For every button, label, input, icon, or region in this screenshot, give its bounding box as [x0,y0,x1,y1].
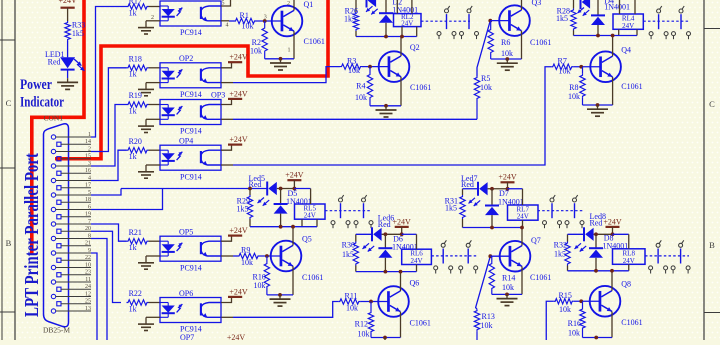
svg-text:R20: R20 [129,137,142,146]
LED Led8 Red [583,227,585,241]
ground below LED1 [67,78,69,82]
svg-text:+24V: +24V [227,333,246,340]
wire CON1 pin9 down to bottom edge [91,253,97,341]
wire R2/Q1 emitter [265,58,294,60]
Q7 collector to relay rail [521,228,523,246]
ground at OP4 pin2 [146,164,160,166]
wire R1 to Q1 base [256,20,282,22]
resistor R20 1k [127,148,149,153]
RL7 top rail [463,188,479,190]
svg-text:10k: 10k [254,281,266,290]
Q6 emitter down [400,312,402,338]
ground below Q7 [506,294,508,298]
pin stub R20 to opto [149,149,161,151]
CON1 pin 17 [57,186,61,190]
wire R4/Q2 emitter [370,105,401,107]
ground at OP5 pin2 [146,255,160,257]
junction D7 bottom [490,226,494,230]
LED LED1 Red [60,57,75,68]
svg-text:R12: R12 [355,320,368,329]
wire R12/Q6 emitter [371,337,401,339]
RL7 contact linkage (dashed) [538,210,584,212]
resistor R10 10k [266,256,268,262]
junction D5 bottom [279,225,283,229]
svg-text:B: B [709,240,715,250]
transistor Q3 C1061 [499,5,530,36]
CON1 pin 14 [57,142,61,146]
wire R6/Q3 emitter [491,58,522,60]
wire CON1 pin20 to R22 [91,231,121,302]
svg-text:+24V: +24V [393,217,412,226]
svg-text:OP4: OP4 [179,137,193,146]
wire base to Q3 [490,20,509,22]
junction at Q7 emitter [505,293,509,297]
wire CON1 pin6 to node rail [91,189,163,210]
svg-text:1k: 1k [129,243,137,252]
wire R15 to Q8 base [574,300,600,302]
svg-text:8: 8 [88,233,91,239]
svg-text:PC914: PC914 [180,172,202,181]
wire R13 to Q7 base (diagonal) [476,256,491,309]
wire OP2 pin4 to R3 [233,67,340,83]
wire rail to RL6 coil [402,233,417,235]
resistor R16 10k [582,301,584,307]
junction D8 top [594,232,598,236]
svg-text:CON1: CON1 [44,114,64,123]
svg-text:+24V: +24V [229,287,248,296]
svg-text:12: 12 [85,291,91,297]
relay RL2 24V [394,14,422,27]
+24V at OP4 pin5 [221,145,232,151]
svg-text:C1061: C1061 [304,37,325,46]
svg-text:21: 21 [85,241,91,247]
junction at Q1 emitter [279,57,283,61]
wire R7 to Q4 base [573,66,600,68]
relay RL6 24V [402,249,432,264]
junction at Q6 base [369,300,373,304]
svg-text:OP6: OP6 [179,289,193,298]
opto-isolator OP1 PC914 [160,1,221,26]
diode D8 1N4001 [595,234,597,248]
junction Q5 collector rail [291,225,295,229]
svg-text:C1061: C1061 [410,83,431,92]
svg-text:C1061: C1061 [410,319,431,328]
wire CON1 pin7 to R21 [91,224,127,241]
RL6 top rail [356,233,372,235]
RL2 bottom rail [356,36,417,38]
resistor R9 10k [238,253,260,258]
RL2 bottom pins [401,27,403,37]
Q3 emitter down [521,31,523,59]
+24V at RL6 rail [395,226,409,228]
CON1 pin 1 [51,135,55,139]
Q7 emitter down [521,266,523,294]
RL8 top rail [568,233,585,235]
wire Led8 to +24V junction [594,233,613,235]
svg-text:1: 1 [288,48,291,54]
junction at Q4 emitter [596,103,600,107]
pin stub OP1 pin4 [221,20,229,22]
diode D4 1N4001 [597,0,599,15]
RL8 contact linkage (dashed) [645,255,689,257]
opto-isolator OP5 PC914 [160,236,221,261]
pin stub R19 to opto [149,104,161,106]
svg-text:22: 22 [85,255,91,261]
svg-text:R5: R5 [481,74,490,83]
ground at OP6 pin2 [146,316,160,318]
wire CON1 pin4 to R20 [91,150,127,180]
ground below Q1 [280,59,282,63]
svg-text:10k: 10k [568,329,580,338]
resistor R1 10k [234,18,256,23]
resistor R32 1k5 [567,234,569,241]
resistor R13 10k (from bottom edge) [476,331,478,341]
wire Led6 to +24V junction [382,233,402,235]
pin stub OP3 pin4 [221,118,233,120]
RL6 contact set 1 [441,243,445,247]
CON1 pin 5 [51,193,55,197]
svg-text:R15: R15 [559,291,572,300]
RL6 contact linkage (dashed) [431,255,478,257]
svg-text:24V: 24V [411,257,423,265]
RL6 bottom rail [356,271,417,273]
opto-isolator OP2 PC914 [160,63,221,88]
wire LED1 to ground [67,70,69,79]
CON1 pin 25 [57,302,61,306]
junction Q4 collector rail [611,34,615,38]
Q2 emitter down [400,77,402,106]
transistor Q5 C1061 [271,241,302,272]
ground below Q3 [506,59,508,63]
Q5 emitter down [292,266,294,295]
svg-text:1k: 1k [129,152,137,161]
svg-text:24V: 24V [622,22,634,30]
CON1 pin 6 [51,207,55,211]
junction at Q5 emitter [278,293,282,297]
opto-isolator OP6 PC914 [160,298,221,323]
pin stub OP1 pin5 to top edge [221,0,231,6]
+24V at RL7 rail [501,181,515,183]
svg-text:10k: 10k [481,321,493,330]
svg-text:C1061: C1061 [530,38,551,47]
pin stub R22 to opto [149,302,161,304]
pin stub R17 to opto [149,6,161,8]
RL7 contact set 1 [550,198,554,202]
svg-text:1k: 1k [129,106,137,115]
svg-text:19: 19 [85,212,91,218]
CON1 pin 19 [57,215,61,219]
resistor R7 10k [551,64,573,69]
svg-text:1k5: 1k5 [344,15,356,24]
ground below Q2 [385,106,387,110]
svg-text:R18: R18 [129,55,142,64]
svg-text:10k: 10k [480,83,492,92]
resistor R15 10k [554,299,574,304]
svg-text:1k5: 1k5 [445,204,457,213]
svg-text:6: 6 [88,204,91,210]
svg-text:R32: R32 [554,241,567,250]
+24V at RL5 rail [287,179,301,181]
svg-text:10k: 10k [241,258,253,267]
RL5 contact set 2 [362,198,366,202]
junction at Q4 base [579,65,583,69]
svg-text:18: 18 [85,197,91,203]
RL2 contact set 1 [445,9,449,13]
pin stub OP4 pin4 [221,164,233,166]
ground at OP1 pin2 [146,20,160,22]
svg-text:R4: R4 [356,82,365,91]
resistor R6 10k [490,21,492,28]
CON1 pin 11 [51,280,55,284]
RL7 bottom rail [463,227,523,229]
svg-text:4: 4 [88,175,91,181]
highlighted red wire B (CON1 pin15 up and across to top edge) [55,0,328,159]
svg-text:1N4001: 1N4001 [604,2,630,11]
CON1 pin 20 [57,229,61,233]
svg-text:1k5: 1k5 [237,205,249,214]
wire OP1 pin4 to R1 [229,20,234,22]
svg-text:C: C [6,98,12,108]
wire OP4 pin4 to R7 [233,67,551,165]
CON1 pin 12 [51,294,55,298]
CON1 pin 15 [57,157,61,161]
svg-text:Red: Red [48,58,61,67]
junction Q8 collector rail [610,269,614,273]
RL2 contact linkage (dashed) [421,20,470,22]
pin stub OP5 pin4 [221,255,233,257]
svg-text:Q4: Q4 [621,46,631,55]
junction at Q7 base [488,254,492,258]
svg-text:PC914: PC914 [180,127,202,136]
CON1 pin 3 [51,164,55,168]
svg-text:5: 5 [88,190,91,196]
svg-text:R1: R1 [240,11,249,20]
CON1 pin 22 [57,258,61,262]
resistor R29 1k5 [249,189,251,196]
ground below Q6 (cropped) [384,338,386,342]
svg-text:R3: R3 [347,57,356,66]
svg-text:3: 3 [88,161,91,167]
RL8 contact set 1 [656,243,660,247]
CON1 pin 16 [57,171,61,175]
svg-text:OP5: OP5 [179,228,193,237]
svg-text:R6: R6 [501,38,510,47]
highlighted red wire A (from top edge down left side) [32,0,84,254]
junction at Q2 emitter [384,104,388,108]
svg-text:OP2: OP2 [179,54,193,63]
RL4 contact set 2 [679,9,683,13]
Q8 collector to relay rail [611,271,613,291]
svg-text:R30: R30 [342,240,355,249]
relay RL5 24V [295,204,326,219]
pin stub R18 to opto [149,67,161,69]
svg-text:Red: Red [461,180,474,189]
resistor R4 10k [369,67,371,73]
CON1 pin 7 [51,222,55,226]
wire OP5 pin4 to R9 [233,255,238,257]
svg-text:Q8: Q8 [621,280,631,289]
wire +24V to R33 [67,8,69,21]
Q4 collector to relay rail [612,36,614,57]
wire R9 to Q5 base [260,255,281,257]
junction at Q8 base [579,299,583,303]
wire R16/Q8 emitter [583,337,613,339]
wire OP6 pin4 to R11 [233,302,338,318]
svg-text:+24V: +24V [285,171,304,180]
svg-text:10k: 10k [502,283,514,292]
CON1 pin 13 [51,309,55,313]
RL8 contact set 2 [679,243,683,247]
resistor R3 10k [340,64,362,69]
diode D7 1N4001 [491,189,493,206]
svg-text:23: 23 [85,270,91,276]
svg-text:24V: 24V [517,213,529,221]
svg-text:16: 16 [85,168,91,174]
wire R3 to Q2 base [362,66,389,68]
wire R33 to LED1 [67,41,69,57]
wire Led7 to +24V junction [488,188,508,190]
svg-text:+24V: +24V [229,89,248,98]
svg-text:C1061: C1061 [621,82,642,91]
resistor R17 1k [127,4,149,9]
pin stub OP6 pin4 [221,316,233,318]
svg-text:1k: 1k [129,70,137,79]
RL8 bottom pin [628,264,630,271]
resistor R2 10k [264,21,266,27]
svg-text:R14: R14 [502,274,515,283]
resistor R11 10k [338,299,360,304]
junction at Q6 emitter [383,336,387,340]
junction at Q8 emitter [594,336,598,340]
svg-text:20: 20 [85,226,91,232]
svg-text:Q7: Q7 [531,236,541,245]
svg-text:1k5: 1k5 [554,250,566,259]
junction D5 top [279,187,283,191]
svg-text:7: 7 [88,219,91,225]
svg-text:C1061: C1061 [621,318,642,327]
+24V at OP3 pin5 [221,99,232,105]
svg-text:+24V: +24V [58,0,77,5]
RL4 contact linkage (dashed) [643,20,690,22]
LED Led6 Red [371,227,373,241]
svg-text:Q6: Q6 [410,279,420,288]
relay RL7 24V [508,205,539,220]
wire CON1 pin1 to R17 [91,7,127,138]
Q4 emitter down [612,77,614,105]
svg-text:R7: R7 [558,57,567,66]
svg-text:10: 10 [85,262,91,268]
resistor R12 10k [370,302,372,312]
svg-text:2: 2 [287,1,290,7]
transistor Q2 C1061 [379,51,410,82]
resistor R21 1k [127,239,149,244]
svg-text:1k5: 1k5 [556,14,568,23]
junction at Q5 base [265,254,269,258]
svg-text:10k: 10k [358,330,370,339]
LED Led5 Red [266,182,268,196]
svg-text:24V: 24V [623,257,635,265]
svg-text:+24V: +24V [229,226,248,235]
resistor R19 1k [127,102,149,107]
svg-text:10k: 10k [250,47,262,56]
wire CON1 pin3 to R19 [91,105,127,167]
wire CON1 pin2 to R18 [91,68,127,152]
svg-text:Q2: Q2 [410,43,420,52]
CON1 pin 8 [51,236,55,240]
Q1 emitter down [293,31,295,59]
RL4 contact set 1 [657,9,661,13]
ground at OP3 pin2 [146,118,160,120]
resistor R18 1k [127,65,149,70]
relay RL8 24V [613,249,646,264]
svg-text:1k5: 1k5 [342,250,354,259]
svg-text:+24V: +24V [498,173,517,182]
Q8 emitter down [611,312,613,338]
resistor R28 1k5 [573,0,575,8]
svg-text:2: 2 [88,146,91,152]
CON1 pin 4 [51,178,55,182]
CON1 pin 9 [51,251,55,255]
svg-text:24V: 24V [304,212,316,220]
svg-text:PC914: PC914 [180,90,202,99]
junction R29 tap [248,187,252,191]
svg-text:Indicator: Indicator [20,95,64,111]
wire CON1 pin8 down to bottom edge [91,239,107,342]
RL6 contact set 2 [466,243,470,247]
resistor R22 1k [127,300,149,305]
ground below Q5 [279,295,281,299]
RL5 bottom pins [301,219,303,227]
transistor Q4 C1061 [590,51,621,82]
ground below Q4 [597,105,599,109]
Q2 collector to relay rail [400,37,402,57]
transistor Q7 C1061 [500,241,531,272]
svg-text:24: 24 [85,284,91,290]
wire rail to RL5 coil [294,188,310,190]
resistor R26 1k5 [355,0,357,12]
junction Q7 collector rail [520,226,524,230]
resistor R5 10k [476,100,478,119]
opto-isolator OP4 PC914 [160,145,221,170]
RL2 contact set 2 [467,9,471,13]
wire rail to RL8 coil [613,233,629,235]
opto-isolator OP3 PC914 [160,100,221,125]
resistor R8 10k [582,67,584,74]
+24V at RL8 rail [606,226,620,228]
svg-text:C1061: C1061 [530,273,551,282]
svg-text:R19: R19 [129,91,142,100]
pin stub R21 to opto [149,240,161,242]
wire OP3 pin4 to R5 [233,118,477,120]
svg-text:10k: 10k [568,92,580,101]
svg-text:+24V: +24V [603,217,622,226]
wire R5 to Q3 base (diagonal) [477,21,490,76]
RL5 bottom rail [250,226,317,228]
Q6 collector to relay rail [400,272,402,291]
junction at Q3 base [488,19,492,23]
svg-text:4: 4 [226,22,229,28]
transistor Q8 C1061 [590,286,621,317]
svg-text:PC914: PC914 [180,28,202,37]
wire from bottom edge to R15 [546,301,554,341]
resistor R30 1k5 [355,234,357,241]
RL7 contact set 2 [573,198,577,202]
svg-text:15: 15 [85,154,91,160]
svg-text:+24V: +24V [229,135,248,144]
junction D6 bottom [384,270,388,274]
Q1 collector to top edge [293,0,295,10]
junction D4 rail [596,34,600,38]
